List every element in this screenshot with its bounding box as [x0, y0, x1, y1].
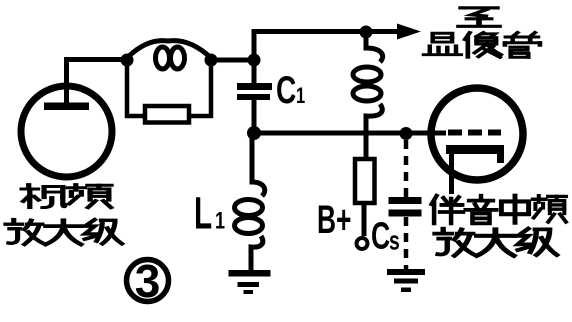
capacitor C1	[237, 60, 272, 133]
wire coil bottom through bus to resistor	[364, 116, 369, 159]
label L1	[194, 188, 225, 239]
svg-text:C: C	[371, 214, 390, 257]
sound takeoff coil (vertical)	[353, 36, 383, 133]
label Cs	[371, 214, 400, 257]
svg-text:s: s	[389, 225, 400, 255]
wire plate to node A	[67, 60, 128, 104]
node D junction dot	[360, 26, 373, 39]
resistor R (B+ feed), vertical	[355, 159, 375, 203]
dashed wire capacitor to ground	[404, 217, 409, 269]
svg-text:B+: B+	[317, 198, 351, 243]
grid (dashed) of V2	[448, 130, 501, 136]
label 至 (to)	[459, 8, 499, 26]
peaking coil (top, parallel)	[127, 41, 211, 69]
node A junction dot	[121, 54, 134, 67]
svg-text:3: 3	[135, 255, 161, 307]
node E junction dot	[247, 126, 261, 140]
tube V1 envelope (video amplifier)	[21, 86, 112, 177]
node F junction dot	[400, 127, 413, 140]
damping resistor (parallel with coil)	[127, 63, 211, 123]
wire node B to node C	[211, 58, 254, 63]
ground (under L1)	[229, 270, 271, 294]
figure number 3 (circled)	[127, 255, 169, 307]
wire resistor to B+ terminal	[362, 203, 367, 236]
svg-text:1: 1	[296, 84, 305, 109]
label 显像管 (picture tube)	[424, 33, 540, 58]
wire node F into tube V2 grid	[406, 131, 446, 136]
svg-text:C: C	[276, 69, 296, 113]
label 放大级 (amplifier stage), right	[435, 229, 557, 256]
ground (right)	[387, 269, 425, 292]
label B+	[317, 198, 351, 243]
label 视频 (video)	[22, 185, 111, 208]
cathode of V2	[446, 145, 504, 194]
wire node C up and along top to node D	[254, 32, 366, 61]
inductor L1	[235, 133, 265, 270]
svg-text:L: L	[194, 188, 212, 239]
dashed wire node F down to stray capacitor	[404, 140, 409, 197]
svg-text:1: 1	[215, 208, 225, 234]
tube V1 anode plate	[44, 103, 89, 111]
wire node E to node F (bottom bus)	[254, 131, 406, 136]
node B junction dot	[205, 54, 218, 67]
label 放大级 (amplifier stage), left	[6, 220, 122, 245]
tube V2 envelope (sound IF amplifier)	[431, 88, 523, 180]
node C junction dot	[248, 54, 261, 67]
wire with arrow to picture tube	[366, 24, 421, 40]
B+ terminal circle	[357, 238, 368, 249]
label C1	[276, 69, 305, 113]
stray capacitor Cs plates	[389, 197, 422, 204]
label 伴音中频 (sound IF)	[432, 196, 566, 224]
